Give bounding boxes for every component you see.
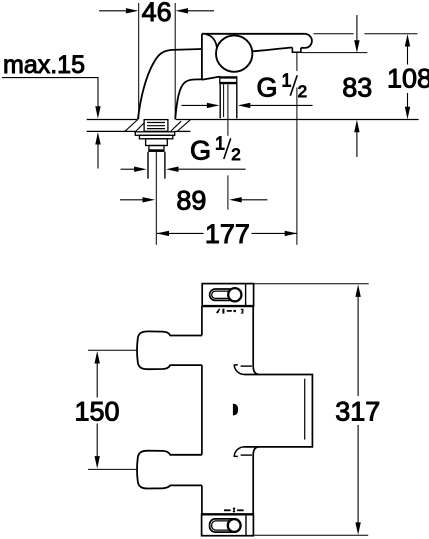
dimension 317 top extension (254, 283, 369, 285)
deck bottom line (87, 130, 136, 132)
locknut (146, 139, 168, 146)
upper handle (137, 331, 202, 369)
mixer body right edge (bottom view) (253, 306, 258, 374)
left inlet pipe (147, 152, 149, 179)
max.15 leader line (2, 78, 98, 108)
dimension 83 top extension (301, 52, 367, 54)
max.15 arrow down to deck top (95, 106, 100, 119)
spout outer profile (138, 49, 202, 119)
dimension 150 top extension (88, 349, 136, 351)
arm rounded tip (305, 34, 312, 48)
right inlet nut (220, 76, 237, 78)
G 1/2 lower arrows (121, 168, 135, 170)
bottom end cap (202, 514, 254, 535)
body-knob fillet (206, 34, 217, 48)
G 1/2 upper arrows (181, 104, 208, 106)
spout block bottom fillet (234, 447, 244, 457)
spout block top fillet (234, 365, 244, 375)
right pipe centerline (227, 84, 229, 136)
dimension 177 right extension (outlet centerline) (296, 53, 298, 71)
deck top line (87, 119, 138, 121)
dimension 89 arrow right (241, 199, 268, 201)
top cap knob circle (228, 288, 241, 301)
temperature markings top (217, 309, 220, 313)
knob circle (216, 35, 252, 71)
dimension 46 extension line left (138, 3, 140, 119)
shank adapter (149, 146, 164, 152)
svg-text:317: 317 (335, 397, 380, 427)
svg-text:2: 2 (231, 145, 240, 164)
svg-text:1: 1 (215, 134, 225, 154)
svg-text:G: G (190, 136, 211, 166)
spout block (244, 375, 313, 447)
svg-text:G: G (257, 72, 278, 102)
dimension 150 line lower (96, 424, 98, 458)
aerator mark on body (233, 404, 238, 416)
spout inner profile (175, 79, 202, 119)
svg-text:83: 83 (342, 73, 372, 103)
through-deck shank (144, 120, 168, 132)
svg-text:max.15: max.15 (3, 51, 85, 79)
dimension 46 arrow left (99, 10, 127, 12)
deck hatching (125, 120, 137, 131)
outlet nub (292, 48, 301, 53)
svg-text:1: 1 (282, 71, 292, 91)
dimension 150 bottom extension (88, 468, 136, 470)
dimension 46 arrow right (187, 10, 215, 12)
dimension 108 top extension (314, 33, 354, 35)
dimension 108 upper arrow (405, 34, 410, 47)
svg-text:46: 46 (142, 0, 172, 27)
arm bottom edge (252, 48, 305, 52)
top cap handle pill (210, 289, 242, 300)
dimension 83 lower arrow (356, 132, 358, 157)
dimension 83 upper arrow (356, 15, 358, 41)
right inlet pipe (219, 84, 221, 118)
washer flange row1 (135, 132, 174, 136)
dimension 46 extension line right (174, 3, 176, 119)
dimension 150 line upper (95, 351, 100, 364)
max.15 arrow up to deck bottom (97, 144, 99, 169)
lower handle (137, 451, 202, 489)
left pipe centerline / dim extension (155, 152, 157, 245)
dimension 108 lower arrow (407, 93, 409, 108)
svg-text:150: 150 (74, 396, 119, 426)
bottom cap handle pill (210, 519, 241, 532)
mixer body left edge (201, 34, 203, 80)
mixer body / arm top edge (202, 33, 305, 35)
svg-text:2: 2 (298, 82, 307, 101)
svg-text:108: 108 (387, 64, 429, 94)
dimension 177 line (157, 232, 204, 234)
body bottom slant (202, 77, 220, 80)
mixer body left edge (bottom view) (201, 306, 203, 335)
dimension 317 bottom extension (254, 534, 369, 536)
svg-text:89: 89 (176, 185, 206, 215)
temperature markings bottom (224, 509, 231, 511)
dimension 317 line lower (357, 425, 359, 524)
washer flange row2 (139, 135, 172, 139)
dimension 89 arrow left (120, 199, 144, 201)
bottom cap knob circle (228, 519, 241, 532)
top end cap (202, 284, 253, 307)
dimension 317 line upper (355, 284, 360, 297)
svg-text:177: 177 (205, 219, 250, 249)
